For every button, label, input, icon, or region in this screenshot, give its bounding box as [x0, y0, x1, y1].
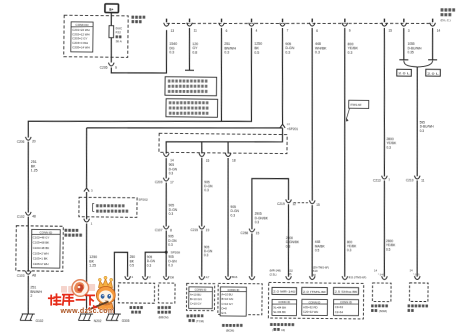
watermark mascot crown: [99, 279, 113, 288]
svg-text:G102: G102: [35, 319, 43, 323]
svg-text:14: 14: [437, 29, 441, 33]
svg-text:14: 14: [410, 268, 414, 272]
svg-text:17: 17: [170, 180, 174, 184]
svg-text:6: 6: [226, 29, 228, 33]
svg-text:1: 1: [91, 222, 93, 226]
svg-text:(TCM): (TCM): [196, 319, 204, 323]
svg-text:C=10 GY: C=10 GY: [190, 302, 202, 306]
mascot pencil: [91, 302, 109, 309]
svg-text:CONN ID: CONN ID: [195, 288, 207, 292]
svg-text:(EBCM): (EBCM): [159, 315, 169, 319]
svg-text:0.35: 0.35: [407, 50, 413, 54]
svg-text:0.3: 0.3: [204, 188, 209, 192]
reference box ECM 2.0L: [166, 99, 218, 118]
engine option box 2.0L right: [426, 69, 441, 76]
svg-text:19: 19: [206, 228, 210, 232]
label SDM: [371, 304, 374, 307]
svg-text:CONN ID: CONN ID: [340, 300, 352, 304]
svg-text:K32: K32: [288, 269, 293, 273]
svg-text:C104=48 BK: C104=48 BK: [33, 246, 50, 250]
svg-text:A=10 BU: A=10 BU: [190, 292, 201, 296]
watermark red text wei-ku-yi-xia: [49, 294, 94, 305]
svg-text:C=10 GY: C=10 GY: [221, 302, 233, 306]
svg-text:C215: C215: [190, 228, 198, 232]
svg-text:3: 3: [408, 29, 410, 33]
wire pin 6b down to C219-15: [310, 28, 314, 201]
wire pin 7 to splice SP201: [281, 28, 283, 124]
DLC label (data link connector): [441, 8, 444, 11]
svg-text:C206: C206: [17, 140, 25, 144]
svg-text:(D.L.C.): (D.L.C.): [441, 18, 451, 22]
svg-text:9: 9: [349, 29, 351, 33]
svg-text:2.0 ITMS-6F: 2.0 ITMS-6F: [303, 290, 327, 294]
svg-text:0.3: 0.3: [169, 212, 174, 216]
svg-text:K19: K19: [313, 269, 318, 273]
svg-text:18: 18: [232, 159, 236, 163]
svg-text:C205: C205: [100, 66, 108, 70]
label ECM: [270, 323, 273, 326]
svg-text:15: 15: [388, 29, 392, 33]
svg-text:2: 2: [30, 294, 32, 298]
EBCM dashed box: [158, 283, 175, 303]
reference box ECM 2.3L: [165, 77, 217, 96]
svg-text:2.0 L: 2.0 L: [398, 71, 410, 75]
svg-text:* (H4): * (H4): [413, 273, 420, 276]
svg-text:SP201: SP201: [288, 127, 298, 131]
svg-text:0.5: 0.5: [315, 248, 320, 252]
connector pin 3 chevron on ground wire: [84, 188, 89, 192]
svg-text:XL=84 BH: XL=84 BH: [273, 305, 286, 309]
connector C258 pin 15: [251, 229, 254, 232]
svg-text:0.3: 0.3: [169, 51, 174, 55]
connector C209 pin 17: [165, 178, 168, 181]
cluster pin 15 at x=384.4: [383, 19, 385, 23]
harness dashed rect below SP201: [159, 133, 287, 153]
svg-text:CONN ID: CONN ID: [39, 230, 53, 234]
svg-text:(SDM): (SDM): [379, 309, 387, 313]
svg-text:C219: C219: [277, 202, 285, 206]
svg-text:CONN ID: CONN ID: [75, 23, 89, 27]
wire SP208 down to EBCM pin D8: [165, 252, 167, 277]
svg-text:2.5 SHba-B6: 2.5 SHba-B6: [335, 290, 358, 294]
svg-text:0.5: 0.5: [386, 247, 391, 251]
connector pin 1 below SP202: [85, 219, 88, 222]
battery feed B+ terminal box: [105, 4, 119, 13]
svg-text:48: 48: [32, 215, 36, 219]
ECM header 2.5 SHba-B6: [333, 287, 358, 294]
BCM CONN ID table: [220, 287, 246, 316]
svg-text:0.3: 0.3: [315, 51, 320, 55]
svg-text:7: 7: [287, 29, 289, 33]
svg-text:www.dzsc.com: www.dzsc.com: [59, 308, 114, 315]
svg-text:0.3: 0.3: [204, 253, 209, 257]
pin cup ECM SHba: [343, 277, 346, 280]
svg-text:A8: A8: [32, 274, 36, 278]
splice SP201 chevron: [280, 124, 285, 128]
svg-text:B=10 GN: B=10 GN: [221, 297, 233, 301]
svg-text:C2=64: C2=64: [335, 310, 344, 314]
watermark emblem circle: [72, 280, 89, 297]
svg-text:8: 8: [170, 228, 172, 232]
pin cup BCM second: [251, 277, 254, 280]
svg-text:ITMS-6F: ITMS-6F: [350, 103, 362, 107]
svg-text:4: 4: [256, 29, 258, 33]
connector table CONN ID (IP harness): [71, 22, 93, 52]
pin 2 cup theft sensor: [144, 277, 147, 280]
svg-text:(MR-148): (MR-148): [269, 269, 280, 273]
ground G305: [108, 313, 121, 315]
cluster pin 7 at x=282.5: [282, 19, 284, 23]
mascot eyes: [101, 294, 105, 299]
svg-text:SL=84 BK: SL=84 BK: [273, 310, 286, 314]
connector C219 pin 12: [287, 200, 290, 203]
pin B16 cup BCM: [227, 277, 230, 280]
wire SP201 left rail to SP202 branch: [282, 127, 284, 129]
wire C219-15 to ECM ITMS: [311, 205, 312, 277]
svg-text:C107: C107: [155, 228, 163, 232]
wire pin 6 down along ref boxes: [220, 28, 222, 121]
pin cup ECM ITMS-6F: [311, 277, 314, 280]
C219 loop wire to BCM: [251, 178, 288, 230]
connector C206 pin 20: [27, 137, 30, 140]
connector C107 pin 8: [165, 226, 168, 229]
cluster pin 9 at x=344.8: [344, 19, 346, 23]
svg-text:1.25: 1.25: [31, 169, 38, 173]
wire C103 to ground G102: [27, 276, 30, 314]
svg-text:* (H4): * (H4): [378, 273, 385, 276]
svg-text:SP202: SP202: [138, 197, 148, 201]
ECM CONN table 3: [333, 299, 358, 315]
wire C102 to C103 through underhood pass: [28, 217, 29, 273]
svg-text:2.0 MR-140: 2.0 MR-140: [273, 290, 296, 294]
svg-text:0.8: 0.8: [192, 51, 197, 55]
ECM CONN table 2: [302, 299, 328, 315]
wire C206 to C102: [28, 142, 30, 214]
svg-text:0.3: 0.3: [169, 171, 174, 175]
svg-text:(2.5L): (2.5L): [269, 272, 276, 276]
svg-text:6: 6: [316, 29, 318, 33]
ECM CONN table 1: [272, 299, 297, 315]
svg-text:C210: C210: [406, 178, 414, 182]
label theft deterrent sensor: [130, 306, 133, 309]
pin 15 under harness: [200, 154, 203, 157]
svg-text:D8: D8: [170, 275, 174, 279]
merged wire down to C210: [416, 67, 418, 177]
svg-text:0.3: 0.3: [147, 263, 152, 267]
svg-text:F22: F22: [115, 30, 121, 34]
svg-text:0.3: 0.3: [286, 244, 291, 248]
connector table CONN ID (underhood): [31, 229, 60, 268]
svg-text:CONN ID: CONN ID: [309, 300, 321, 304]
reference text ground distribution: [91, 203, 93, 211]
svg-text:C258: C258: [240, 231, 248, 235]
label fuse box (instrument panel): [131, 16, 134, 19]
theft deterrent sensor dashed box: [118, 283, 154, 303]
svg-text:0.3: 0.3: [420, 129, 425, 133]
svg-text:C20=32 WH: C20=32 WH: [303, 310, 318, 314]
watermark ghost text: [61, 284, 95, 293]
fuse block dashed outline (IP fuse box): [64, 15, 128, 57]
svg-text:C205=14 WH: C205=14 WH: [72, 45, 89, 49]
branch SP208 to theft sensor pin 2: [145, 252, 166, 277]
cluster pin 14 at x=432.6: [432, 19, 434, 23]
ground distribution dashed box SP202: [85, 192, 88, 220]
svg-text:N202: N202: [94, 319, 102, 323]
wire C205 to cluster pin 13: [111, 29, 167, 73]
pin D8 cup EBCM: [165, 277, 168, 280]
label TCM: [187, 315, 190, 318]
ground G202: [80, 313, 93, 315]
label EPS power steering module: [408, 304, 411, 307]
pin 14 under harness: [165, 154, 168, 157]
svg-text:B16: B16: [232, 275, 238, 279]
svg-text:C103=68 BK: C103=68 BK: [33, 241, 50, 245]
svg-text:C213: C213: [373, 178, 381, 182]
svg-text:0.3: 0.3: [230, 213, 235, 217]
svg-text:E11 (ITMS-6F): E11 (ITMS-6F): [349, 275, 367, 279]
svg-text:G305: G305: [122, 319, 130, 323]
svg-text:15: 15: [256, 231, 260, 235]
svg-text:11: 11: [421, 178, 425, 182]
merge brace to single wire: [404, 61, 418, 67]
ITMS-6F tag box with arrow: [349, 100, 369, 108]
splice SP208 junction dot: [165, 251, 168, 254]
wire pin 3 to 2.0L junction: [402, 28, 405, 60]
dashed link C219 pin 12 to pin 15: [294, 202, 309, 204]
svg-text:(: (: [272, 328, 273, 332]
pin cup EPS: [416, 277, 419, 280]
cluster pin 6 at x=221.5: [221, 19, 223, 23]
ground G102: [22, 313, 35, 315]
svg-text:CONN ID: CONN ID: [278, 300, 290, 304]
connector C205 pin 9: [110, 63, 113, 66]
wire C213 to SDM: [383, 181, 385, 277]
svg-text:C3=63: C3=63: [335, 305, 344, 309]
svg-text:14: 14: [170, 158, 174, 162]
mascot body: [98, 303, 113, 310]
connector C210 pin 11: [416, 176, 419, 179]
EPS dashed box: [409, 283, 428, 302]
wire pin 9 to ECM: [342, 28, 347, 277]
wire pin 14 to C209: [165, 158, 167, 179]
wire pin 14 to 2.0L junction: [431, 28, 434, 60]
cluster pin 13 at x=166.5: [166, 19, 168, 23]
svg-text:3: 3: [91, 189, 93, 193]
svg-text:(29-ITMS-6F): (29-ITMS-6F): [313, 265, 329, 269]
watermark mascot head: [96, 286, 115, 304]
watermark red arrow tail: [93, 305, 99, 309]
cluster pin 11 at x=189.5: [189, 19, 191, 23]
SDM dashed box: [372, 283, 391, 302]
svg-text:11: 11: [194, 29, 198, 33]
ECM header 2.0 ITMS-6F: [302, 287, 328, 294]
svg-text:2: 2: [149, 275, 151, 279]
svg-text:15: 15: [316, 203, 320, 207]
TCM dashed box: [186, 283, 214, 310]
theft deterrent sensor pin 1 ground branch: [114, 252, 128, 314]
SP201 distribution wires to pins 14/15/18: [166, 127, 283, 155]
svg-text:40: 40: [313, 273, 317, 277]
svg-text:B=10 GN: B=10 GN: [190, 297, 202, 301]
svg-text:1.25: 1.25: [89, 264, 96, 268]
svg-text:0.3: 0.3: [285, 51, 290, 55]
svg-text:7: 7: [388, 178, 390, 182]
label BCM: [222, 324, 225, 327]
svg-text:0.3: 0.3: [347, 248, 352, 252]
svg-text:E=1: E=1: [221, 311, 227, 315]
pin 1 cup theft sensor: [126, 277, 129, 280]
wire C219-12 down to ECM MR-140: [288, 204, 289, 277]
ECM dashed box: [268, 283, 363, 319]
svg-text:0.3: 0.3: [168, 243, 173, 247]
svg-text:C102=48 GY: C102=48 GY: [33, 235, 50, 239]
svg-text:C106=2 WH: C106=2 WH: [33, 262, 49, 266]
svg-text:0.5: 0.5: [254, 51, 259, 55]
svg-text:C103: C103: [17, 274, 25, 278]
instrument cluster dashed outline (bus line): [166, 21, 432, 27]
ECM header 2.0 MR-140: [272, 287, 297, 294]
svg-text:B+: B+: [109, 8, 113, 12]
svg-text:0.3: 0.3: [224, 51, 229, 55]
cluster pin 6 at x=312.2: [311, 19, 313, 23]
svg-text:9: 9: [115, 66, 117, 70]
wire pin 11 down to reference: [188, 28, 191, 70]
svg-text:1: 1: [131, 275, 133, 279]
svg-text:D5: D5: [288, 272, 292, 276]
svg-text:A7: A7: [206, 275, 210, 279]
cluster pin 4 at x=251.5: [251, 19, 253, 23]
connector C103 pin A8: [27, 271, 30, 274]
wire pin 4 to left rail corner: [28, 26, 252, 141]
pin 18 under harness: [227, 154, 230, 157]
svg-text:C105=2 WH: C105=2 WH: [33, 251, 49, 255]
pin cup SDM: [383, 277, 386, 280]
fuse F22 30A: [110, 26, 113, 63]
svg-text:0.3: 0.3: [348, 51, 353, 55]
svg-text:0.3: 0.3: [386, 145, 391, 149]
svg-text:0.3: 0.3: [255, 220, 260, 224]
svg-text:13: 13: [171, 29, 175, 33]
svg-text:C209: C209: [155, 180, 163, 184]
wire C210 to EPS module: [416, 180, 418, 276]
connector C219 pin 15 on 448 wire: [311, 201, 314, 204]
svg-text:(BCM): (BCM): [226, 328, 234, 332]
underhood connector dashed box: [16, 226, 63, 271]
svg-text:CONN ID: CONN ID: [227, 288, 239, 292]
svg-text:D=8: D=8: [221, 306, 227, 310]
TCM CONN ID table: [189, 287, 213, 309]
svg-text:0.3: 0.3: [168, 263, 173, 267]
svg-text:20: 20: [32, 140, 36, 144]
wire to ground G202: [86, 224, 88, 315]
label underhood connector: [65, 229, 68, 232]
svg-text:0.5: 0.5: [130, 263, 135, 267]
connector C213 pin 7: [383, 176, 386, 179]
BCM dashed box: [218, 283, 262, 314]
wire B+ to fuse F22: [110, 13, 112, 26]
svg-text:30 A: 30 A: [115, 39, 122, 43]
svg-text:C102: C102: [17, 215, 25, 219]
svg-text:15: 15: [206, 159, 210, 163]
svg-text:A35=32 RD: A35=32 RD: [303, 305, 318, 309]
connector C215 pin 19: [200, 226, 203, 229]
pin A7 cup TCM: [200, 277, 203, 280]
svg-text:C105=1 BK: C105=1 BK: [33, 257, 48, 261]
svg-text:13): 13): [281, 328, 285, 332]
svg-text:14: 14: [374, 269, 378, 273]
svg-text:A=10 BU: A=10 BU: [221, 293, 232, 297]
wire pin 15 down to C213: [383, 28, 386, 177]
cluster pin 3 at x=403.8: [403, 19, 405, 23]
wire pin 15 to C215: [201, 158, 202, 227]
label EBCM: [158, 306, 161, 309]
pin cup ECM MR-140: [287, 277, 290, 280]
svg-text:1/J: 1/J: [287, 122, 291, 126]
engine option box 2.0L left: [397, 69, 412, 76]
wire pin 18 to BCM: [227, 158, 229, 277]
connector C102 pin 48: [27, 212, 30, 215]
svg-text:2.0 L: 2.0 L: [427, 71, 439, 75]
